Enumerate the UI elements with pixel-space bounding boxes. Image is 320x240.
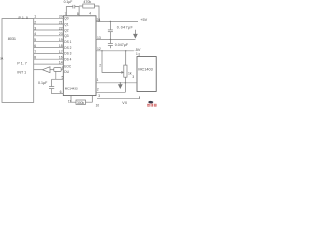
ground arrow on VSS (134, 30, 138, 38)
svg-text:Q0: Q0 (64, 17, 68, 21)
ADC U2 MC14433 box (63, 16, 96, 96)
wire CLK0 pin 10 lead (86, 96, 93, 103)
svg-text:0.047μF: 0.047μF (117, 25, 134, 29)
wire R2 to node R1C1 (55, 71, 57, 79)
svg-text:6: 6 (60, 90, 62, 94)
wiper arrow into RP (121, 71, 123, 74)
wire VEE pin 12 to -5V (96, 50, 134, 52)
svg-text:20: 20 (59, 15, 63, 19)
svg-text:3: 3 (34, 26, 36, 30)
svg-text:EOC: EOC (64, 64, 72, 68)
wire INT1 to inverter output (34, 69, 43, 71)
svg-text:470k: 470k (83, 0, 91, 4)
wire VAG pin 1 rail to U3 (96, 82, 137, 84)
svg-text:8: 8 (77, 12, 79, 16)
resistor R3 300k (76, 100, 86, 104)
svg-text:8031: 8031 (8, 37, 16, 41)
svg-text:MC14433: MC14433 (65, 86, 78, 90)
svg-text:300k: 300k (77, 101, 85, 105)
capacitor C1 0.1uF (49, 79, 54, 88)
svg-text:DU: DU (64, 70, 69, 74)
wire P1.3 to Q3 (34, 35, 64, 37)
svg-text:VX: VX (122, 101, 127, 105)
wire EOC to U1 (34, 63, 64, 65)
voltage reference U3 MC1403 box (137, 57, 156, 92)
junction VDD x C2 (110, 21, 111, 22)
resistor R1 470k (83, 4, 95, 8)
wire VX pin 3 input (97, 98, 140, 100)
svg-text:MC1403: MC1403 (138, 68, 152, 72)
wire RP bottom lead (124, 77, 126, 92)
svg-text:18: 18 (59, 44, 63, 48)
svg-text:DS 2: DS 2 (64, 46, 71, 50)
wire P1.6 to DS3 (34, 52, 64, 54)
microcontroller U1 8031 box (2, 19, 34, 103)
svg-text:3: 3 (132, 75, 134, 79)
svg-text:P 1. 0: P 1. 0 (19, 16, 28, 20)
wire C1 to pin 6 (52, 89, 64, 94)
wire P1.2 to Q2 (34, 29, 64, 31)
svg-text:Q3: Q3 (64, 34, 68, 38)
wire RP top lead (125, 51, 127, 65)
svg-text:12: 12 (97, 47, 101, 51)
svg-text:19: 19 (59, 38, 63, 42)
svg-text:0.047μF: 0.047μF (115, 43, 129, 47)
svg-text:1: 1 (136, 52, 138, 56)
wire inverter input (50, 69, 54, 71)
svg-text:11: 11 (68, 100, 72, 104)
VX input terminal tick (139, 96, 141, 98)
wire wiper branch to RP (102, 51, 121, 73)
svg-text:DS 4: DS 4 (64, 58, 71, 62)
wire VR pin 2 to U3 output (96, 91, 125, 93)
svg-text:5: 5 (62, 76, 64, 80)
svg-text:10: 10 (96, 103, 100, 107)
wire R1 right lead to VDD rail (95, 6, 100, 21)
svg-text:3: 3 (98, 94, 100, 98)
wire U3 input stub (138, 53, 140, 57)
svg-text:22: 22 (59, 26, 63, 30)
capacitor C3 0.047uF (108, 39, 113, 48)
svg-text:21: 21 (59, 21, 63, 25)
svg-text:13: 13 (97, 36, 101, 40)
svg-text:14: 14 (59, 61, 63, 65)
potentiometer RP 1k body (124, 65, 127, 77)
svg-text:23: 23 (59, 32, 63, 36)
wire P1.7 to DS4 (34, 58, 64, 60)
svg-text:6: 6 (34, 44, 36, 48)
svg-text:1: 1 (97, 78, 99, 82)
capacitor C2 0.047uF (108, 21, 113, 39)
junction VAG x ground stub (120, 82, 121, 83)
svg-text:16: 16 (59, 56, 63, 60)
junction VDD x R1 lead (98, 21, 99, 22)
svg-text:2: 2 (99, 63, 101, 67)
wire R1 left lead (79, 5, 83, 7)
wire P1.1 to Q1 (34, 23, 64, 25)
inverter A1 triangle (42, 67, 50, 73)
svg-text:9: 9 (62, 66, 64, 70)
wire VDD pin 24 to +5V (96, 20, 138, 22)
wire CLK1 pin 11 lead (71, 96, 76, 103)
svg-text:2: 2 (34, 21, 36, 25)
wire P1.4 to DS1 (34, 41, 64, 43)
svg-text:0.1μF: 0.1μF (38, 81, 48, 85)
junction VAG x RP bottom (125, 82, 126, 83)
wire VSS pin 13 (96, 38, 135, 40)
svg-text:4: 4 (34, 32, 36, 36)
svg-text:7: 7 (34, 50, 36, 54)
wire node R1C1 to pin 5 (52, 78, 64, 80)
wire P1.0 to Q0 (34, 17, 64, 19)
svg-text:1: 1 (34, 15, 36, 19)
wire P1.5 to DS2 (34, 47, 64, 49)
junction VEE x wiper branch (101, 50, 102, 51)
junction VEE x RP top (125, 50, 126, 51)
svg-text:DS 3: DS 3 (64, 52, 71, 56)
junction VSS x C2 (110, 39, 111, 40)
svg-text:5: 5 (34, 38, 36, 42)
svg-text:2: 2 (97, 88, 99, 92)
wire pin 8 stub (75, 7, 79, 16)
svg-text:DS 1: DS 1 (64, 40, 71, 44)
svg-text:8: 8 (34, 56, 36, 60)
wire pin 7 stub (66, 7, 73, 16)
ground arrow on VAG rail (119, 83, 123, 88)
svg-text:4: 4 (89, 11, 91, 15)
svg-text:7: 7 (65, 12, 67, 16)
watermark logo (147, 101, 156, 107)
svg-text:1k: 1k (128, 71, 132, 75)
svg-text:P 1. 7: P 1. 7 (17, 61, 26, 65)
svg-text:INT 1: INT 1 (17, 70, 26, 74)
wire to DU pin 9 (61, 69, 63, 71)
svg-text:0.1μF: 0.1μF (64, 0, 73, 4)
svg-text:17: 17 (59, 50, 63, 54)
resistor R2 on DU line (54, 68, 61, 72)
svg-text:Q2: Q2 (64, 28, 68, 32)
svg-text:Q1: Q1 (64, 22, 68, 26)
svg-text:+5V: +5V (140, 18, 147, 22)
capacitor C0 0.1uF plates (73, 5, 75, 9)
